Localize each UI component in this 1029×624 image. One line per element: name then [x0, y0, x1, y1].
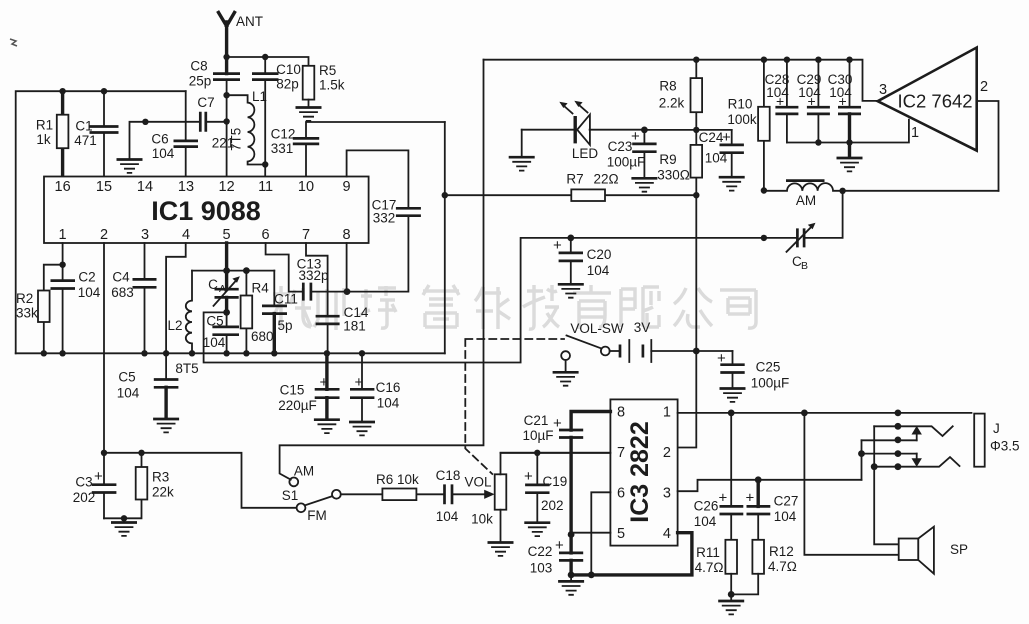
svg-text:R2: R2 — [16, 291, 33, 306]
inductor L2 8T5 — [186, 271, 192, 354]
svg-text:+: + — [555, 537, 564, 554]
inductor AM coil — [764, 183, 999, 191]
svg-text:100µF: 100µF — [607, 155, 646, 170]
node junction C11 bus — [271, 350, 277, 356]
svg-text:IC1 9088: IC1 9088 — [151, 196, 261, 226]
wire pin6 to ground run — [591, 492, 610, 575]
svg-text:330Ω: 330Ω — [657, 168, 690, 183]
svg-text:16: 16 — [55, 179, 71, 195]
svg-text:R5: R5 — [319, 63, 336, 78]
capacitor C25 100uF — [732, 351, 734, 388]
capacitor C14 181 — [316, 316, 340, 324]
svg-text:3: 3 — [663, 486, 671, 502]
svg-text:104: 104 — [436, 509, 459, 524]
node junction R2 bus — [41, 350, 47, 356]
capacitor C26 104 — [730, 413, 732, 540]
svg-text:C26: C26 — [694, 499, 719, 514]
wire C7-left / ground branch — [130, 122, 201, 159]
resistor R4 680 — [245, 271, 247, 354]
svg-text:680: 680 — [251, 329, 274, 344]
svg-text:103: 103 — [530, 561, 553, 576]
watermark 杭州将睿科技有限公司 (approximated strokes) — [273, 285, 756, 330]
svg-text:+: + — [717, 350, 726, 367]
jack upper stationary contact — [874, 426, 953, 436]
jack lower stationary contact — [874, 457, 959, 467]
svg-text:S1: S1 — [282, 488, 299, 503]
capacitor C7 221 — [200, 112, 206, 132]
wire pin5 to C22 node — [571, 532, 610, 534]
node junction R9/R7/battery — [693, 192, 699, 198]
svg-text:R9: R9 — [659, 152, 676, 167]
svg-text:332p: 332p — [298, 268, 328, 283]
capacitor C20 104 — [570, 238, 572, 283]
wire pin4 jog — [166, 243, 186, 353]
svg-text:AM: AM — [796, 193, 816, 208]
svg-text:R10: R10 — [728, 97, 753, 112]
svg-text:22k: 22k — [152, 485, 174, 500]
svg-text:B: B — [801, 260, 808, 272]
node junction C10 top — [262, 54, 268, 60]
node junction pin6 ground run — [588, 572, 595, 579]
node junction pin2/C3/R3 — [101, 450, 107, 456]
svg-text:12: 12 — [219, 179, 235, 195]
capacitor C15 220uF — [325, 353, 328, 418]
svg-text:10k: 10k — [471, 512, 493, 527]
svg-text:7: 7 — [617, 445, 625, 461]
ground below C19 — [524, 523, 550, 536]
svg-text:14: 14 — [137, 179, 153, 195]
resistor R12 4.7ohm — [752, 540, 764, 574]
svg-text:R3: R3 — [152, 470, 169, 485]
node junction CA/C5 — [223, 309, 230, 316]
svg-text:C4: C4 — [112, 270, 130, 285]
node junction R4 top — [243, 267, 250, 274]
phone jack J body bar — [974, 414, 985, 467]
resistor R1 — [61, 91, 64, 176]
capacitor C28 104 — [786, 60, 788, 143]
svg-text:2.2k: 2.2k — [659, 96, 685, 111]
wire VOL bottom to ground — [500, 510, 502, 542]
node junction C14/C15 bus — [324, 350, 330, 356]
svg-text:4.7Ω: 4.7Ω — [768, 559, 797, 574]
svg-text:C19: C19 — [543, 474, 568, 489]
resistor R8 2.2k — [695, 60, 697, 130]
svg-text:C8: C8 — [190, 59, 207, 74]
svg-text:13: 13 — [178, 179, 194, 195]
svg-text:L2: L2 — [167, 318, 182, 333]
node junction near pin14 — [142, 119, 148, 125]
svg-text:5p: 5p — [277, 318, 292, 333]
svg-text:VOL-SW: VOL-SW — [570, 321, 624, 336]
wire jack NC to speaker — [874, 426, 899, 544]
svg-text:R7: R7 — [566, 172, 583, 187]
svg-text:8: 8 — [343, 227, 351, 243]
svg-text:683: 683 — [111, 285, 134, 300]
node junction C8/L1 — [223, 92, 229, 98]
node junction C30 bar / ground — [846, 139, 852, 145]
resistor R3 22k — [104, 453, 142, 519]
capacitor C29 104 — [817, 60, 819, 143]
svg-text:C6: C6 — [151, 132, 168, 147]
svg-text:104: 104 — [694, 514, 717, 529]
LED emission arrows — [564, 105, 588, 114]
node junction C20 line / R10 — [761, 235, 767, 241]
wire pin8 to C21 — [571, 412, 610, 431]
ground below R5 — [296, 108, 322, 121]
node junction R10/AM coil — [761, 187, 767, 193]
wire pin6 jog to C13 — [266, 243, 304, 292]
IC3 2822 box — [610, 399, 677, 545]
capacitor C2 104 — [62, 265, 64, 354]
svg-text:4: 4 — [182, 227, 190, 243]
capacitor C18 104 — [445, 484, 453, 504]
svg-text:471: 471 — [74, 133, 97, 148]
svg-text:C: C — [208, 277, 218, 292]
node junction AM coil right / CB — [839, 188, 845, 194]
ground below C24 — [719, 177, 745, 190]
node junction row4 — [858, 450, 865, 457]
svg-text:FM: FM — [307, 508, 327, 523]
wire R8 bottom node — [644, 129, 731, 131]
main bus rail — [16, 352, 445, 354]
svg-text:22Ω: 22Ω — [593, 172, 618, 187]
node junction C21/C22/pin5 — [568, 531, 575, 538]
svg-text:11: 11 — [258, 179, 273, 195]
node junction LED/C23/R8 line — [641, 126, 648, 133]
switch S1 pole contact — [332, 490, 341, 499]
capacitor C19 202 — [536, 453, 538, 522]
capacitor C16 104 — [361, 353, 363, 421]
node junction L1 bottom / pin11 — [262, 161, 268, 167]
svg-text:+: + — [776, 93, 784, 109]
svg-text:202: 202 — [73, 490, 96, 505]
node junction R4 bus — [243, 350, 249, 356]
LED — [522, 129, 645, 131]
resistor R7 22ohm — [445, 194, 697, 196]
node junction C4 bus — [141, 350, 147, 356]
ground below C23 — [631, 178, 657, 191]
node junction C2 bus — [59, 350, 65, 356]
svg-text:104: 104 — [377, 396, 400, 411]
capacitor C5 104 (in gang box) — [212, 327, 239, 335]
node junction C1 top — [101, 88, 107, 94]
wire pin2 long vertical — [103, 243, 105, 453]
svg-text:+: + — [839, 93, 847, 109]
ground below C15 — [314, 420, 340, 433]
speaker SP — [899, 539, 919, 561]
node junction C29 rail — [815, 57, 821, 63]
jack upper moving contact arrow — [916, 434, 918, 440]
ground below C5 — [153, 419, 179, 432]
node junction L2 bus — [189, 350, 195, 356]
wire pin8 stub — [346, 243, 348, 292]
svg-text:C10: C10 — [276, 62, 301, 77]
resistor R2 33k — [38, 291, 50, 323]
svg-text:1k: 1k — [36, 132, 51, 147]
svg-text:R8: R8 — [659, 79, 676, 94]
resistor R9 330ohm — [695, 130, 697, 195]
svg-text:+: + — [553, 415, 562, 432]
svg-text:R6 10k: R6 10k — [376, 472, 419, 487]
svg-text:3V: 3V — [634, 320, 651, 335]
svg-text:220µF: 220µF — [278, 398, 317, 413]
scan artifact top-left — [10, 39, 17, 46]
svg-text:C11: C11 — [274, 292, 298, 307]
svg-text:C15: C15 — [280, 383, 305, 398]
svg-text:VOL: VOL — [464, 475, 492, 490]
svg-text:25p: 25p — [189, 74, 212, 89]
switch S1 AM contact — [289, 478, 298, 487]
switch S1 FM contact — [297, 503, 306, 512]
node junction C3/R3 ground — [121, 515, 127, 521]
svg-text:+: + — [553, 237, 562, 254]
svg-text:R11: R11 — [696, 545, 720, 560]
svg-text:C18: C18 — [436, 468, 461, 483]
capacitor C1 471 — [103, 91, 105, 176]
wire IC2 pin2 — [977, 101, 999, 191]
svg-text:L1: L1 — [252, 89, 267, 104]
svg-text:C2: C2 — [78, 270, 95, 285]
potentiometer VOL 10k — [495, 474, 507, 509]
antenna ANT — [219, 13, 235, 74]
svg-text:C22: C22 — [528, 544, 553, 559]
ground below VOL-SW — [553, 372, 579, 385]
node junction C22 ground run — [568, 572, 575, 579]
wire top supply rail — [484, 60, 878, 101]
wire pin9 to C17 — [347, 150, 409, 208]
svg-text:104: 104 — [203, 335, 226, 350]
svg-text:Φ3.5: Φ3.5 — [990, 439, 1020, 454]
node junction pin8/C13/C17 — [344, 288, 351, 295]
svg-text:202: 202 — [541, 498, 564, 513]
node junction R7 left — [442, 192, 448, 198]
svg-text:82p: 82p — [276, 77, 299, 92]
wire R9 to battery — [695, 195, 697, 351]
op-amp IC2 7642 triangle — [878, 48, 977, 151]
wire pin3 output line — [678, 480, 862, 491]
svg-text:104: 104 — [152, 146, 175, 161]
svg-text:LED: LED — [572, 146, 599, 161]
node junction R1 top — [59, 88, 65, 94]
svg-text:+: + — [808, 93, 816, 109]
svg-text:+: + — [94, 468, 103, 485]
svg-text:100k: 100k — [727, 112, 757, 127]
svg-text:C5: C5 — [118, 370, 135, 385]
wire pole to R6 — [341, 493, 383, 495]
wire VOL top to C19/C21 line — [501, 453, 611, 475]
svg-text:4: 4 — [663, 526, 671, 542]
node junction R8 top rail — [693, 57, 699, 63]
svg-text:8T5: 8T5 — [175, 361, 198, 376]
capacitor C24 104 — [731, 130, 733, 176]
svg-text:6: 6 — [262, 227, 270, 243]
node junction R10 top rail — [761, 57, 767, 63]
capacitor C21 10uF — [559, 430, 583, 438]
svg-text:ANT: ANT — [236, 14, 263, 29]
svg-text:10: 10 — [298, 179, 314, 195]
wire C18 to VOL wiper — [452, 493, 486, 495]
wire pin7 line — [501, 452, 611, 454]
ground below R11 — [730, 594, 732, 600]
wire pin13 vertical with C6 — [185, 91, 187, 176]
svg-text:104: 104 — [705, 151, 728, 166]
jack terminal dots column — [895, 410, 902, 417]
op-amp/IC IC1 9088 box — [44, 177, 369, 244]
svg-text:+: + — [722, 129, 731, 146]
svg-text:104: 104 — [117, 386, 140, 401]
svg-text:C23: C23 — [608, 139, 633, 154]
capacitor C11 5p — [273, 271, 275, 306]
wire pin5 thick — [225, 243, 228, 312]
ground below C30 bar — [848, 143, 851, 158]
svg-text:104: 104 — [587, 263, 610, 278]
svg-text:2: 2 — [663, 445, 671, 461]
wire CA node horizontal — [192, 270, 274, 272]
variable capacitor CA — [215, 289, 239, 297]
svg-text:C20: C20 — [587, 247, 612, 262]
svg-text:SP: SP — [950, 542, 968, 557]
node junction pin4 bus — [163, 350, 169, 356]
wire battery node to IC3 pin2 — [678, 351, 697, 448]
capacitor C23 100uF — [643, 130, 645, 177]
svg-text:C21: C21 — [524, 413, 549, 428]
svg-text:7T5: 7T5 — [229, 128, 244, 151]
svg-text:+: + — [719, 490, 728, 507]
svg-text:9: 9 — [343, 179, 351, 195]
svg-text:J: J — [993, 421, 1000, 436]
node junction C28 rail — [784, 57, 790, 63]
wire gang link CA to CB (below bus) — [204, 238, 764, 363]
wire antenna top rail — [227, 57, 309, 66]
svg-text:R12: R12 — [769, 544, 794, 559]
svg-text:A: A — [219, 283, 226, 295]
node junction C5 bus — [223, 350, 229, 356]
node junction C26 tap — [728, 410, 735, 417]
capacitor C4 683 — [144, 243, 146, 353]
capacitor C8 25p — [213, 74, 240, 80]
svg-text:33k: 33k — [16, 306, 38, 321]
svg-text:1: 1 — [911, 125, 919, 141]
wire speaker return to pin1 node — [804, 413, 898, 555]
ground below C16 — [349, 422, 375, 435]
wire C28-C30 common bar to IC2 pin1 — [787, 120, 909, 143]
capacitor C27 104 — [757, 480, 760, 507]
svg-text:C12: C12 — [271, 127, 296, 142]
jack row3 wire — [862, 439, 917, 441]
svg-text:1.5k: 1.5k — [319, 78, 345, 93]
svg-text:C27: C27 — [774, 494, 799, 509]
svg-text:3: 3 — [879, 82, 887, 98]
svg-text:10µF: 10µF — [522, 428, 553, 443]
node junction R8/R9 — [693, 127, 699, 133]
capacitor C13 332p — [303, 283, 311, 301]
resistor R6 10k — [382, 489, 416, 501]
svg-text:+: + — [746, 490, 755, 507]
ground below C3/R3 — [123, 518, 125, 521]
svg-text:C25: C25 — [756, 360, 781, 375]
svg-text:C3: C3 — [75, 475, 92, 490]
svg-text:2: 2 — [100, 227, 108, 243]
svg-text:332: 332 — [373, 211, 396, 226]
wire pin7 jog to C14 — [306, 243, 328, 316]
wire C12 branch / R7 node vertical — [444, 122, 446, 353]
node junction C7/antenna stem — [223, 118, 229, 124]
svg-text:6: 6 — [617, 486, 625, 502]
resistor R10 100k — [763, 60, 765, 191]
switch S1 arm — [305, 496, 333, 505]
svg-text:5: 5 — [617, 526, 625, 542]
wire pin1 output line — [678, 412, 972, 414]
svg-text:104: 104 — [78, 285, 101, 300]
svg-text:3: 3 — [141, 227, 149, 243]
ground below C25 — [720, 389, 746, 402]
wire AM contact to top rail — [280, 60, 484, 480]
mech link dashed VOL to VOL-SW — [465, 339, 564, 474]
svg-text:4.7Ω: 4.7Ω — [695, 560, 724, 575]
svg-text:+: + — [355, 374, 364, 391]
svg-text:C7: C7 — [197, 95, 214, 110]
capacitor C5 104 (below bus) — [165, 353, 167, 379]
capacitor C3 202 — [103, 453, 105, 519]
svg-text:5: 5 — [223, 227, 231, 243]
ground left of LED — [521, 130, 523, 157]
variable capacitor CB — [764, 191, 843, 238]
capacitor C6 104 — [174, 141, 199, 147]
jack row4 wire — [862, 453, 917, 455]
svg-text:331: 331 — [271, 141, 294, 156]
svg-text:100µF: 100µF — [751, 376, 790, 391]
wire pin1 / R2 / C2 — [44, 243, 63, 353]
ground below C20 — [558, 284, 584, 297]
node junction battery/R9/C25 — [693, 348, 700, 355]
node junction R3 top — [138, 450, 144, 456]
node junction row5 — [871, 463, 878, 470]
node junction pin1/C2 — [59, 262, 65, 268]
capacitor C22 103 — [569, 535, 572, 553]
svg-text:104: 104 — [774, 509, 797, 524]
node junction C19 — [534, 450, 540, 456]
svg-text:15: 15 — [96, 179, 112, 195]
svg-text:R1: R1 — [36, 118, 53, 133]
ground at C6/C7 node — [117, 160, 143, 173]
svg-text:2: 2 — [980, 79, 988, 95]
capacitor C12 331 — [306, 122, 445, 177]
node junction C29 bar — [815, 139, 821, 145]
jack lower moving contact arrow — [916, 454, 918, 459]
svg-text:C24: C24 — [699, 130, 724, 145]
svg-text:+: + — [320, 374, 329, 391]
inductor L1 7T5 — [227, 95, 266, 164]
resistor R5 1.5k — [303, 66, 315, 100]
wire top-left rail — [16, 91, 186, 353]
node junction ANT/C8 — [223, 54, 229, 60]
wire FM select branch — [104, 453, 297, 508]
svg-text:1: 1 — [663, 405, 671, 421]
wire pin4 thick ground run — [571, 533, 692, 575]
svg-text:1: 1 — [59, 227, 67, 243]
node junction speaker branch — [801, 410, 808, 417]
svg-text:R4: R4 — [252, 281, 270, 296]
svg-text:IC2 7642: IC2 7642 — [898, 91, 973, 112]
node junction C27 tap — [755, 476, 762, 483]
svg-text:+: + — [524, 468, 533, 485]
capacitor C30 104 — [849, 60, 851, 107]
node junction C16 bus — [359, 350, 365, 356]
svg-text:8: 8 — [617, 405, 625, 421]
capacitor C10 82p — [264, 57, 266, 177]
wire pin3 riser to jack — [861, 440, 863, 480]
capacitor C17 332 — [396, 208, 421, 215]
